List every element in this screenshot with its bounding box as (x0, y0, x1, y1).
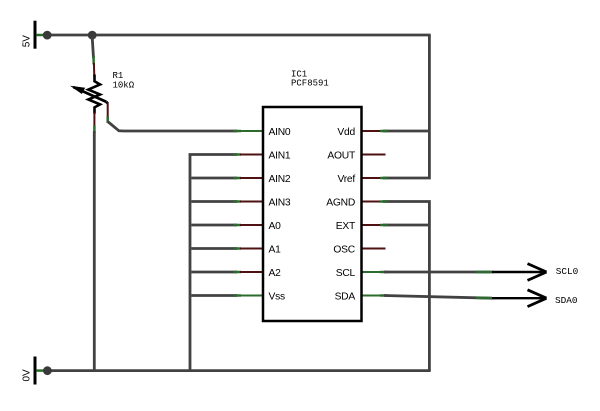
wire SDA joint (green) (476, 297, 494, 300)
pin R1 terminal 1 (red) (93, 63, 95, 77)
green stub Vdd (380, 130, 388, 133)
green stub AGND (380, 200, 388, 203)
svg-text:AIN3: AIN3 (269, 197, 291, 208)
pin AGND (362, 201, 386, 203)
wire left bus vertical (189, 155, 192, 371)
potentiometer wiper arrow shaft (74, 87, 107, 102)
green stub A0 (234, 224, 242, 227)
svg-text:Vref: Vref (337, 174, 355, 185)
wire 5V stub (green) (36, 34, 45, 37)
svg-text:AOUT: AOUT (327, 150, 356, 161)
svg-text:SCL0: SCL0 (556, 266, 579, 277)
pin AIN1 (240, 154, 263, 156)
wire top rail (45, 34, 431, 37)
wire 0V stub (green) (36, 369, 45, 372)
5V supply terminal bar (34, 21, 37, 49)
pin R1 wiper (red) (107, 103, 109, 119)
resistor R1 zigzag (potentiometer) (88, 75, 100, 114)
wire bus to Vss (191, 294, 237, 297)
pin A0 (240, 224, 263, 226)
svg-text:0V: 0V (22, 369, 33, 382)
green stub Vref (380, 177, 388, 180)
svg-text:SDA0: SDA0 (555, 295, 578, 306)
net arrow SCL0 shaft (492, 271, 545, 273)
wire bus to AIN1 (189, 153, 237, 156)
node junction dot at 0V (43, 366, 52, 375)
wire Vdd to right vertical (383, 130, 429, 133)
svg-text:EXT: EXT (336, 221, 356, 232)
svg-text:A1: A1 (269, 244, 282, 255)
green stub AIN1 (234, 153, 242, 156)
pin A1 (240, 248, 263, 250)
svg-text:10kΩ: 10kΩ (113, 81, 135, 91)
wire bus to AIN3 (191, 200, 237, 203)
green stub AIN2 (234, 177, 242, 180)
pin AIN0 (240, 130, 263, 132)
pin A2 (240, 271, 263, 273)
net arrow SCL0 head (528, 264, 547, 281)
pin AIN2 (240, 177, 263, 179)
svg-text:5V: 5V (22, 35, 33, 48)
pin AOUT (362, 154, 386, 156)
potentiometer wiper arrowhead (70, 86, 85, 94)
pin EXT (362, 224, 386, 226)
wire right vertical from top rail to Vref (383, 35, 429, 178)
wire bus to A1 (191, 247, 237, 250)
wire AGND down to bottom rail (383, 202, 429, 371)
wire SCL to arrow (384, 271, 492, 274)
green stub Vss (234, 294, 242, 297)
wire bus to AIN2 (191, 177, 237, 180)
svg-text:AIN1: AIN1 (269, 150, 291, 161)
svg-text:AIN0: AIN0 (269, 127, 291, 138)
svg-text:R1: R1 (113, 71, 124, 81)
svg-text:SDA: SDA (335, 291, 356, 302)
svg-text:A2: A2 (269, 268, 282, 279)
pin R1 terminal 2 (red) (93, 113, 95, 128)
IC U1: IC1 PCF8591 body (263, 107, 362, 321)
svg-text:AIN2: AIN2 (269, 174, 291, 185)
svg-text:SCL: SCL (336, 268, 356, 279)
wire EXT to AGND vertical (383, 224, 429, 227)
net arrow SDA0 head (528, 290, 547, 307)
wire SDA to arrow (384, 296, 492, 299)
green stub A1 (234, 247, 242, 250)
wire R1 bottom green stub (93, 126, 96, 134)
pin Vdd (362, 130, 386, 132)
0V supply terminal bar (34, 357, 37, 385)
green stub AIN0 (234, 130, 242, 133)
green stub EXT (380, 224, 388, 227)
green stub A2 (234, 271, 242, 274)
pin OSC (362, 248, 386, 250)
svg-text:OSC: OSC (333, 244, 355, 255)
wire bottom rail (45, 369, 431, 372)
pin Vref (362, 177, 386, 179)
green stub SCL (380, 271, 388, 274)
net arrow SDA0 shaft (492, 297, 545, 299)
svg-text:Vss: Vss (269, 291, 286, 302)
wire SCL joint (green) (476, 271, 494, 274)
wire bus to A0 (191, 224, 237, 227)
svg-text:AGND: AGND (326, 197, 355, 208)
svg-text:PCF8591: PCF8591 (291, 79, 329, 89)
potentiometer wiper elbow down (106, 102, 107, 104)
svg-text:A0: A0 (269, 221, 282, 232)
pin AIN3 (240, 201, 263, 203)
pin Vss (240, 295, 263, 297)
green stub SDA (380, 294, 388, 297)
wire R1 top green stub (92, 56, 95, 65)
wire wiper green stub (106, 117, 109, 124)
wire R1 top lead from junction (92, 37, 93, 58)
node junction dot above R1 (88, 31, 97, 40)
node junction dot at 5V (43, 31, 52, 40)
pin SDA (362, 295, 385, 297)
pin SCL (362, 271, 385, 273)
green stub AIN3 (234, 200, 242, 203)
wire bus to A2 (191, 271, 237, 274)
wire R1 bottom to rail (93, 131, 96, 371)
svg-text:Vdd: Vdd (337, 127, 355, 138)
wire wiper to AIN0 (108, 122, 237, 132)
